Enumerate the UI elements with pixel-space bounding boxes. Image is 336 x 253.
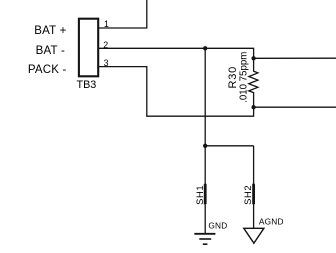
resistor R30 body (zigzag) [249, 58, 258, 107]
wire SH2 vertical [253, 146, 255, 229]
svg-text:SH2: SH2 [242, 185, 253, 205]
wire SH1 vertical [204, 48, 206, 233]
wire pin2 net horizontal (BAT-) [98, 48, 254, 58]
svg-text:TB3: TB3 [77, 79, 97, 91]
svg-text:PACK -: PACK - [28, 64, 67, 76]
svg-text:SH1: SH1 [194, 185, 205, 205]
terminal block TB3 body [79, 19, 98, 77]
svg-text:BAT -: BAT - [36, 45, 65, 57]
svg-text:R30: R30 [227, 66, 239, 89]
ground GND symbol [194, 234, 215, 244]
junction dot resistor bottom node [251, 105, 255, 109]
wire branch right from resistor bottom [254, 106, 336, 108]
wire link SH1 to SH2 [205, 145, 253, 147]
junction dot SH1/SH2 link [203, 144, 207, 148]
svg-text:AGND: AGND [259, 216, 284, 226]
svg-text:BAT +: BAT + [34, 25, 66, 37]
junction dot resistor top node [251, 56, 255, 60]
svg-text:GND: GND [208, 221, 227, 231]
svg-text:2: 2 [103, 40, 108, 50]
junction dot at pin2/SH1 [203, 46, 207, 50]
svg-text:.010 75ppm: .010 75ppm [239, 52, 250, 103]
wire pin3 net (PACK-) [98, 67, 254, 117]
wire pin1 net (BAT+) [98, 0, 147, 28]
svg-text:3: 3 [104, 58, 109, 68]
svg-text:1: 1 [104, 19, 109, 29]
ground AGND symbol (triangle) [244, 228, 264, 243]
wire SH2 thick segment at net label [252, 184, 255, 204]
wire SH1 thick segment at net label [204, 184, 207, 204]
wire branch right from resistor top [254, 57, 336, 59]
